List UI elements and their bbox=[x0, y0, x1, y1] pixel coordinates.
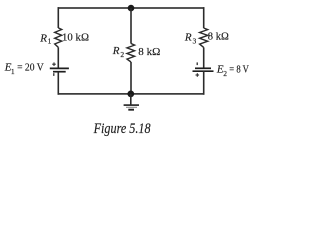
label R3 bbox=[184, 31, 197, 45]
svg-text:1: 1 bbox=[48, 37, 52, 46]
resistor R3 bbox=[200, 28, 208, 47]
svg-text:= 8 V: = 8 V bbox=[229, 64, 249, 75]
wire left branch lower bbox=[57, 72, 59, 95]
svg-text:= 20 V: = 20 V bbox=[17, 62, 44, 73]
wire right branch middle bbox=[203, 47, 205, 68]
svg-text:8 kΩ: 8 kΩ bbox=[138, 46, 160, 58]
battery E1 plus bbox=[52, 62, 56, 66]
wire right branch lower bbox=[203, 71, 205, 95]
wire bottom horizontal bbox=[58, 93, 205, 95]
label E2 = 8 V bbox=[216, 63, 249, 78]
wire left branch middle bbox=[57, 47, 59, 68]
wire top horizontal bbox=[58, 7, 205, 9]
svg-text:R: R bbox=[112, 45, 120, 57]
wire middle branch lower bbox=[130, 62, 132, 94]
node bottom junction bbox=[127, 91, 134, 98]
svg-text:2: 2 bbox=[120, 50, 124, 59]
label R1 bbox=[39, 32, 51, 45]
battery E1 bbox=[50, 68, 69, 71]
svg-text:Figure 5.18: Figure 5.18 bbox=[93, 121, 151, 137]
svg-text:R: R bbox=[184, 31, 192, 43]
battery E2 plus bbox=[196, 73, 200, 77]
battery E1 minus bbox=[53, 73, 55, 76]
svg-text:R: R bbox=[39, 32, 47, 44]
ground bbox=[124, 94, 139, 110]
resistor R1 bbox=[55, 28, 62, 47]
wire middle branch upper bbox=[130, 8, 132, 44]
wire right branch upper bbox=[203, 7, 205, 28]
wire left branch upper bbox=[57, 7, 59, 28]
svg-text:2: 2 bbox=[223, 69, 227, 78]
label R2 bbox=[112, 45, 125, 59]
label E1 = 20 V bbox=[4, 61, 44, 76]
battery E2 minus bbox=[197, 62, 199, 65]
svg-text:3: 3 bbox=[193, 36, 197, 45]
battery E2 bbox=[193, 68, 214, 71]
svg-text:1: 1 bbox=[11, 67, 15, 76]
node top junction bbox=[128, 5, 135, 12]
svg-text:8 kΩ: 8 kΩ bbox=[208, 31, 229, 43]
svg-text:10 kΩ: 10 kΩ bbox=[62, 32, 89, 44]
resistor R2 bbox=[127, 44, 135, 63]
